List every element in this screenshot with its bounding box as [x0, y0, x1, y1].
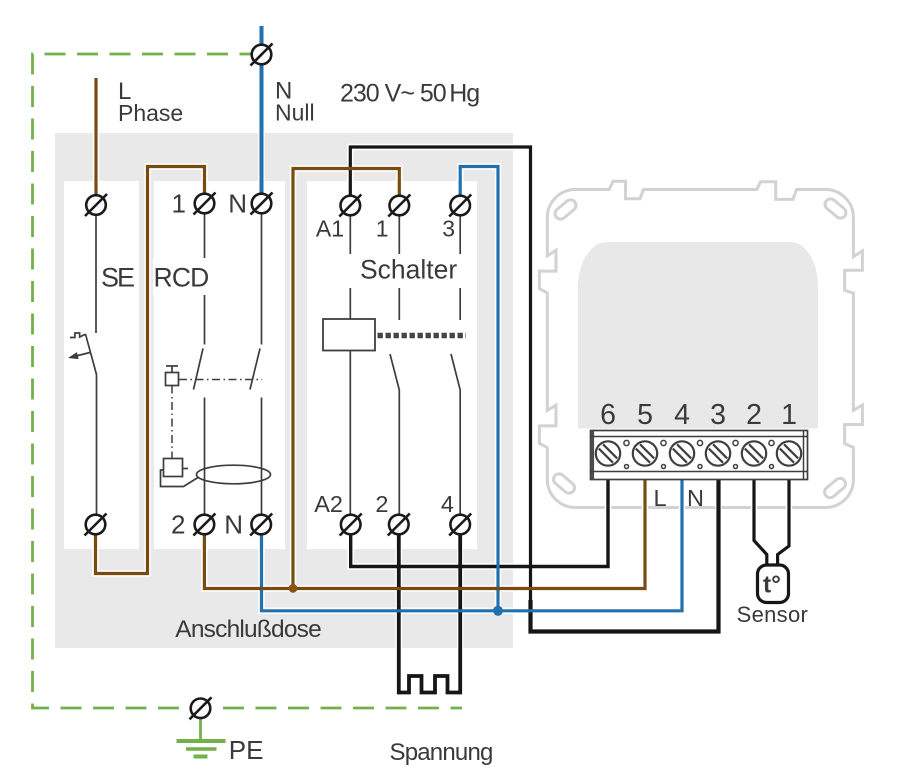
wire A2 to thermostat pin 6 — [351, 466, 608, 567]
PE net green dashed border — [33, 54, 463, 708]
screw terminal 5 — [628, 436, 663, 471]
terminal Schalter 2 — [388, 514, 410, 536]
thermostat body silhouette — [578, 242, 818, 429]
svg-text:A1: A1 — [316, 216, 344, 242]
ground symbol PE — [199, 719, 202, 740]
terminal PE — [190, 697, 212, 719]
svg-text:3: 3 — [442, 216, 455, 242]
terminal Schalter 1 — [388, 195, 410, 217]
frame screw slot bottom-left — [551, 472, 576, 496]
screw terminal 3 — [701, 436, 736, 471]
svg-text:A2: A2 — [314, 491, 343, 517]
terminal Schalter A2 — [340, 514, 362, 536]
terminal node N top — [251, 44, 273, 66]
brown branch to Schalter pin 1 — [293, 169, 399, 589]
svg-text:t°: t° — [763, 572, 781, 599]
svg-text:PE: PE — [229, 735, 264, 765]
svg-text:4: 4 — [441, 491, 454, 517]
wire pin 1 to sensor — [778, 466, 789, 566]
RCD mechanical links dash-dot — [179, 379, 262, 381]
terminal SE top — [85, 194, 107, 216]
svg-text:L: L — [654, 485, 667, 511]
svg-text:3: 3 — [710, 399, 726, 431]
contactor coil — [323, 319, 375, 351]
svg-text:6: 6 — [600, 399, 616, 431]
svg-text:Schalter: Schalter — [360, 255, 457, 285]
SE breaker internals — [70, 216, 97, 515]
svg-text:1: 1 — [172, 189, 186, 219]
terminal RCD 2 — [193, 514, 215, 536]
svg-text:Anschlußdose: Anschlußdose — [175, 616, 321, 643]
blue N feed wire — [260, 26, 264, 203]
RCD white box — [154, 181, 285, 549]
frame screw slot top-right — [823, 197, 848, 221]
thermostat mounting frame outline — [539, 181, 862, 507]
Schalter white box — [307, 181, 477, 549]
terminal Schalter A1 — [339, 195, 361, 217]
wire A1 loop to thermostat pin 3 — [350, 147, 718, 632]
svg-text:Spannung: Spannung — [390, 739, 493, 766]
brown jumper SE to RCD pin 1 — [96, 167, 205, 574]
svg-text:N: N — [228, 189, 247, 219]
screw terminal 2 — [737, 436, 772, 471]
svg-text:2: 2 — [746, 399, 762, 431]
sensor body — [758, 565, 789, 603]
terminal strip block — [591, 431, 808, 480]
strip small holes — [624, 440, 774, 468]
svg-text:230 V~ 50Hg: 230 V~ 50Hg — [340, 80, 479, 108]
blue junction node — [493, 606, 503, 616]
terminal Schalter 4 — [449, 514, 471, 536]
junction box Anschlussdose background — [55, 133, 513, 648]
heating element wire Spannung — [399, 535, 460, 693]
wire casings — [96, 26, 790, 693]
svg-text:2: 2 — [171, 510, 185, 540]
terminal RCD N top — [251, 193, 273, 215]
svg-text:1: 1 — [781, 399, 797, 431]
svg-text:N: N — [224, 510, 243, 540]
terminal Schalter 3 — [449, 195, 471, 217]
svg-text:4: 4 — [674, 399, 690, 431]
terminal RCD 1 — [194, 193, 216, 215]
frame screw slot bottom-right — [822, 476, 847, 500]
terminal SE bottom — [85, 514, 107, 536]
screw terminal 6 — [591, 436, 626, 471]
brown L feed wire — [94, 78, 97, 205]
coil-contact mechanical dashed link — [378, 333, 467, 338]
svg-text:Phase: Phase — [118, 100, 183, 126]
svg-text:Null: Null — [275, 100, 315, 126]
RCD toroid — [197, 465, 271, 484]
svg-text:RCD: RCD — [154, 263, 209, 293]
screw terminal 4 — [665, 436, 700, 471]
svg-text:5: 5 — [637, 399, 653, 431]
wire pin 2 to sensor — [754, 466, 767, 566]
brown junction node — [289, 584, 298, 593]
RCD label bg — [153, 258, 210, 295]
RCD relay coil — [164, 459, 183, 477]
svg-text:N: N — [687, 485, 704, 511]
blue wire RCD N to thermostat pin 4 — [262, 466, 683, 611]
SE white box — [64, 181, 139, 549]
svg-text:SE: SE — [101, 263, 134, 293]
screw terminal 1 — [772, 436, 807, 471]
blue branch to Schalter pin 3 — [460, 167, 498, 611]
RCD internals — [161, 214, 271, 515]
Schalter contactor internals — [350, 216, 460, 515]
svg-text:2: 2 — [375, 491, 388, 517]
terminal RCD N bottom — [250, 514, 272, 536]
svg-text:Sensor: Sensor — [737, 602, 809, 627]
Schalter label strip — [308, 254, 476, 288]
brown wire RCD 2 to thermostat pin 5 — [204, 466, 645, 589]
frame screw slot top-left — [553, 198, 578, 222]
RCD test button — [166, 373, 179, 386]
svg-text:1: 1 — [376, 216, 389, 242]
